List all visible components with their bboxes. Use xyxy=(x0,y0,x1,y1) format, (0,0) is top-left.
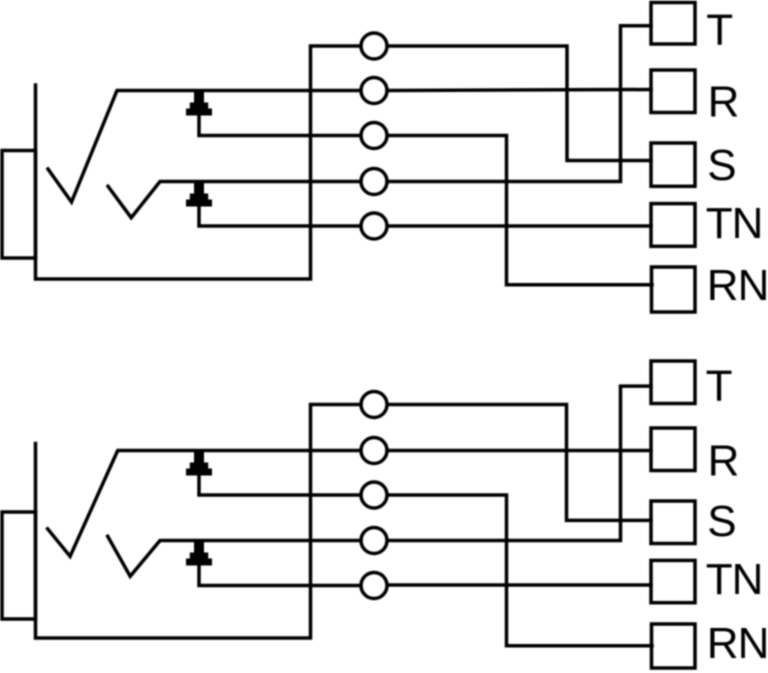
svg-text:S: S xyxy=(707,141,736,190)
svg-text:S: S xyxy=(707,497,736,546)
svg-text:T: T xyxy=(706,6,733,55)
svg-text:R: R xyxy=(708,77,740,126)
svg-text:TN: TN xyxy=(706,555,763,604)
svg-text:T: T xyxy=(706,362,733,411)
svg-text:RN: RN xyxy=(707,619,768,668)
svg-text:R: R xyxy=(708,436,740,485)
svg-text:RN: RN xyxy=(707,261,768,310)
svg-text:TN: TN xyxy=(706,199,763,248)
